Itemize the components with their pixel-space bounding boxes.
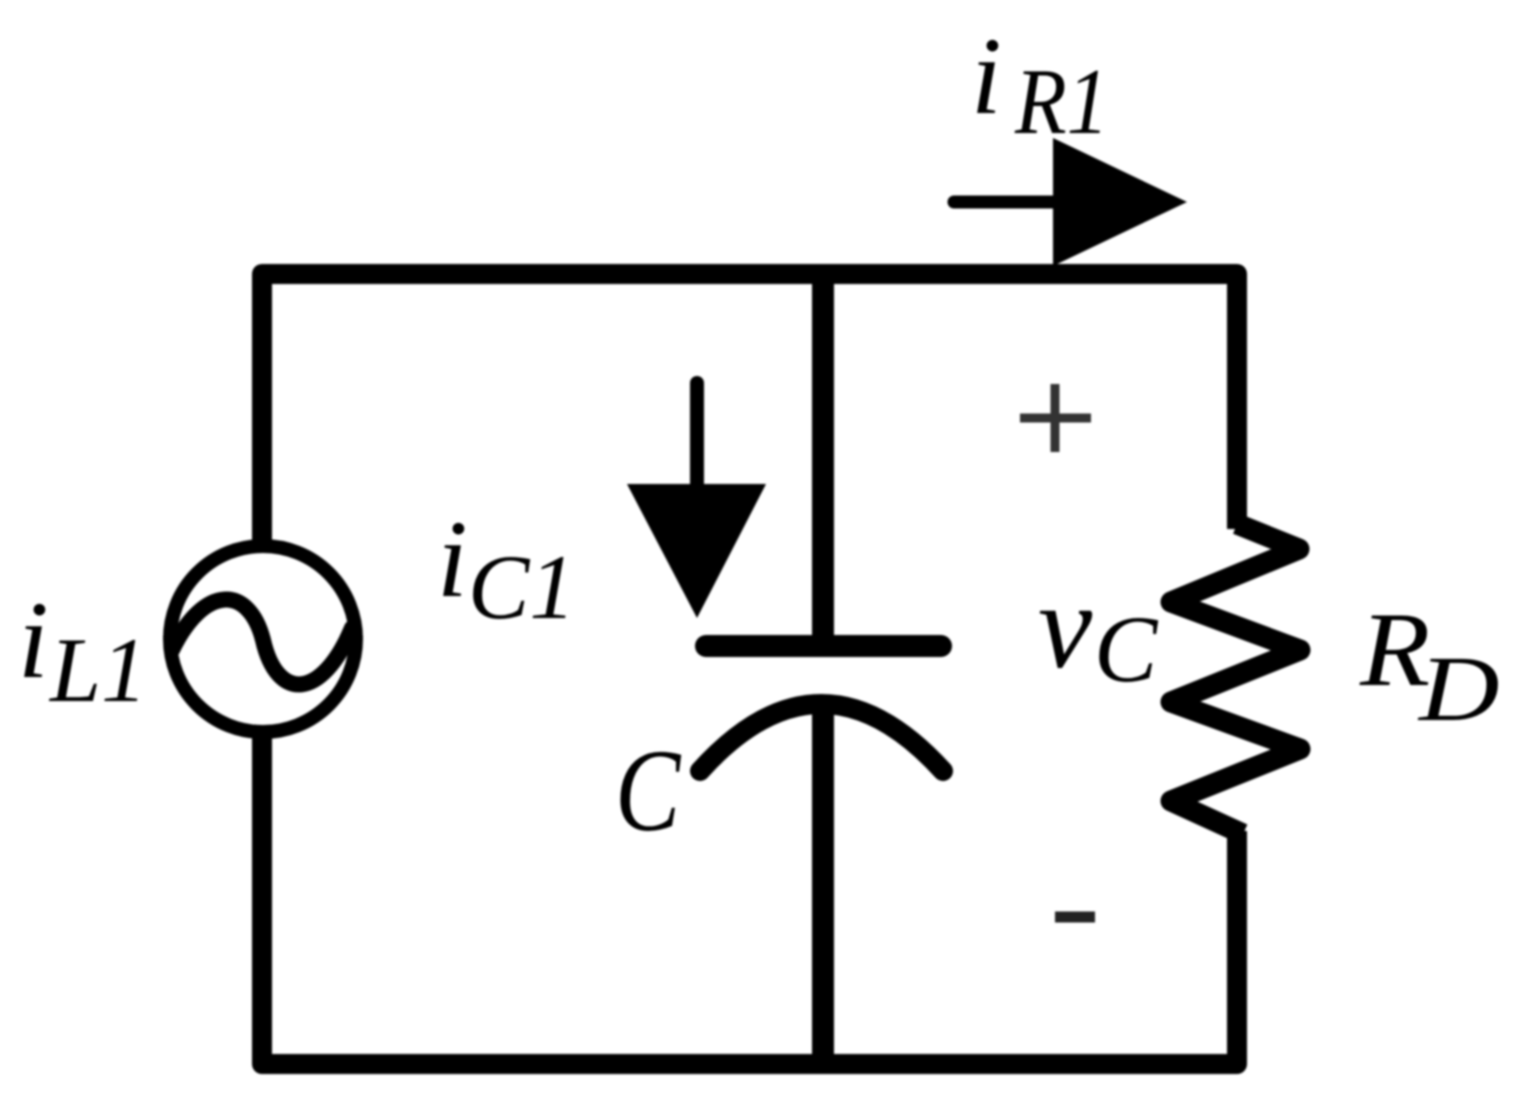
plus sign	[1020, 384, 1091, 452]
svg-text:v: v	[1038, 559, 1093, 694]
arrow i_R1 shaft	[954, 196, 1058, 209]
label i_C1	[437, 498, 575, 638]
wire middle upper segment	[812, 266, 834, 645]
capacitor C curved plate	[700, 704, 943, 771]
svg-text:C: C	[1094, 596, 1159, 702]
resistor R_D zigzag	[1171, 524, 1300, 834]
label i_R1	[971, 15, 1109, 154]
svg-text:R1: R1	[1014, 50, 1109, 154]
label i_L1	[18, 579, 147, 721]
arrow i_C1 head	[627, 484, 766, 618]
capacitor C top plate	[706, 635, 941, 657]
svg-text:C1: C1	[468, 536, 575, 638]
wire loop frame (top, left, bottom, right stubs)	[262, 274, 1237, 1064]
current source U1 circle	[170, 546, 356, 732]
current source sine wave	[172, 600, 352, 685]
arrow i_C1 shaft	[690, 383, 704, 486]
minus sign	[1055, 912, 1095, 923]
arrow i_R1 head	[1053, 138, 1187, 266]
label R_D	[1359, 591, 1500, 741]
label v_C	[1038, 559, 1159, 702]
svg-text:i: i	[18, 579, 49, 701]
svg-text:D: D	[1417, 638, 1500, 741]
svg-text:i: i	[971, 15, 1002, 137]
svg-text:L1: L1	[48, 619, 147, 721]
svg-text:i: i	[437, 498, 468, 620]
svg-text:C: C	[615, 726, 682, 857]
wire middle lower segment	[812, 695, 834, 1064]
